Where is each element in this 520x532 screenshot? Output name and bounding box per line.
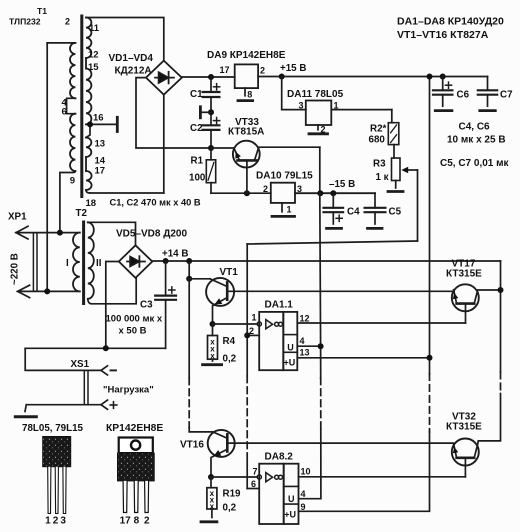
svg-text:7: 7 — [253, 467, 258, 477]
svg-text:2: 2 — [65, 17, 70, 27]
svg-text:0,2: 0,2 — [223, 503, 237, 514]
svg-text:1: 1 — [287, 205, 292, 215]
svg-text:+U: +U — [284, 510, 296, 520]
svg-text:х 50 В: х 50 В — [119, 326, 147, 337]
svg-text:+15 В: +15 В — [280, 63, 306, 74]
svg-text:8: 8 — [134, 516, 140, 527]
svg-text:12: 12 — [88, 50, 99, 61]
svg-text:VD1–VD4: VD1–VD4 — [109, 53, 154, 64]
svg-text:R3: R3 — [373, 159, 386, 170]
svg-text:~220 В: ~220 В — [10, 253, 21, 285]
svg-text:DA1–DA8 КР140УД20: DA1–DA8 КР140УД20 — [397, 15, 504, 27]
svg-text:R2*: R2* — [370, 124, 387, 135]
svg-text:15: 15 — [88, 62, 99, 73]
svg-text:0,2: 0,2 — [223, 354, 237, 365]
svg-text:C1, C2 470 мк х 40 В: C1, C2 470 мк х 40 В — [110, 198, 201, 208]
svg-text:17: 17 — [95, 166, 106, 177]
svg-text:–15 В: –15 В — [329, 179, 355, 190]
svg-text:680: 680 — [369, 135, 386, 146]
svg-text:1: 1 — [334, 101, 339, 111]
svg-text:2: 2 — [263, 184, 268, 194]
svg-text:ХР1: ХР1 — [8, 212, 27, 223]
svg-text:C5: C5 — [389, 207, 402, 218]
svg-text:C4, C6: C4, C6 — [459, 122, 491, 133]
svg-text:ТЛП232: ТЛП232 — [9, 17, 41, 27]
svg-text:1: 1 — [252, 313, 257, 323]
svg-text:100: 100 — [189, 173, 206, 184]
svg-text:C3: C3 — [140, 300, 153, 311]
svg-text:+14 В: +14 В — [162, 249, 188, 260]
svg-text:C1: C1 — [190, 89, 203, 100]
svg-text:КР142ЕН8Е: КР142ЕН8Е — [106, 423, 163, 434]
svg-text:U: U — [288, 494, 295, 504]
svg-text:9: 9 — [301, 502, 306, 512]
svg-text:VT16: VT16 — [180, 440, 204, 451]
svg-text:DA9 КР142ЕН8Е: DA9 КР142ЕН8Е — [207, 50, 286, 61]
svg-text:C6: C6 — [457, 90, 470, 101]
svg-text:x: x — [210, 502, 215, 511]
svg-text:6: 6 — [251, 479, 256, 489]
svg-text:VT1–VT16 КТ827А: VT1–VT16 КТ827А — [397, 29, 489, 41]
svg-text:КТ315Е: КТ315Е — [446, 422, 482, 433]
svg-text:11: 11 — [89, 23, 100, 34]
svg-text:XS1: XS1 — [71, 359, 90, 370]
svg-text:КТ315Е: КТ315Е — [446, 269, 482, 280]
svg-text:+U: +U — [284, 358, 296, 368]
svg-text:DA11 78L05: DA11 78L05 — [287, 89, 344, 100]
svg-text:18: 18 — [86, 198, 97, 209]
svg-text:R1: R1 — [191, 156, 204, 167]
svg-text:R19: R19 — [223, 489, 242, 500]
svg-text:6: 6 — [62, 107, 67, 118]
svg-text:C2: C2 — [190, 123, 203, 134]
svg-text:2: 2 — [249, 326, 254, 336]
svg-text:10 мк x 25 В: 10 мк x 25 В — [447, 135, 506, 146]
svg-text:КТ815А: КТ815А — [228, 127, 264, 138]
svg-text:17: 17 — [220, 65, 230, 75]
svg-text:2: 2 — [144, 516, 150, 527]
svg-text:9: 9 — [70, 176, 75, 187]
svg-text:4: 4 — [300, 336, 305, 346]
svg-text:VD5–VD8 Д200: VD5–VD8 Д200 — [116, 229, 187, 240]
svg-text:"Нагрузка": "Нагрузка" — [103, 385, 154, 396]
svg-text:3: 3 — [60, 516, 66, 527]
svg-text:2: 2 — [321, 125, 326, 135]
svg-text:C7: C7 — [500, 90, 513, 101]
svg-text:R4: R4 — [223, 336, 236, 347]
svg-text:1 к: 1 к — [376, 172, 389, 183]
svg-text:Т1: Т1 — [37, 6, 47, 16]
svg-text:U: U — [287, 343, 294, 353]
svg-text:DA10 79L15: DA10 79L15 — [256, 171, 313, 182]
svg-text:VT1: VT1 — [220, 267, 239, 278]
svg-text:I: I — [66, 258, 69, 269]
svg-text:3: 3 — [299, 101, 304, 111]
svg-text:DA8.2: DA8.2 — [265, 452, 294, 463]
svg-text:C5, C7 0,01 мк: C5, C7 0,01 мк — [440, 158, 510, 169]
svg-text:C4: C4 — [347, 207, 360, 218]
svg-text:8: 8 — [247, 90, 252, 100]
svg-text:КД212А: КД212А — [115, 66, 152, 77]
svg-text:17: 17 — [120, 516, 132, 527]
svg-text:2: 2 — [260, 66, 265, 76]
svg-text:13: 13 — [300, 348, 310, 358]
svg-text:x: x — [210, 351, 215, 360]
svg-text:4: 4 — [301, 489, 306, 499]
svg-text:16: 16 — [93, 113, 104, 124]
svg-text:12: 12 — [300, 314, 310, 324]
svg-text:13: 13 — [95, 139, 106, 150]
svg-text:3: 3 — [297, 184, 302, 194]
svg-text:1: 1 — [45, 516, 51, 527]
svg-text:DA1.1: DA1.1 — [265, 300, 294, 311]
svg-text:2: 2 — [53, 516, 59, 527]
svg-text:II: II — [96, 258, 102, 269]
svg-text:100 000 мк х: 100 000 мк х — [106, 314, 163, 325]
svg-text:Т2: Т2 — [76, 208, 88, 219]
svg-text:78L05, 79L15: 78L05, 79L15 — [22, 423, 84, 434]
svg-text:10: 10 — [301, 467, 311, 477]
